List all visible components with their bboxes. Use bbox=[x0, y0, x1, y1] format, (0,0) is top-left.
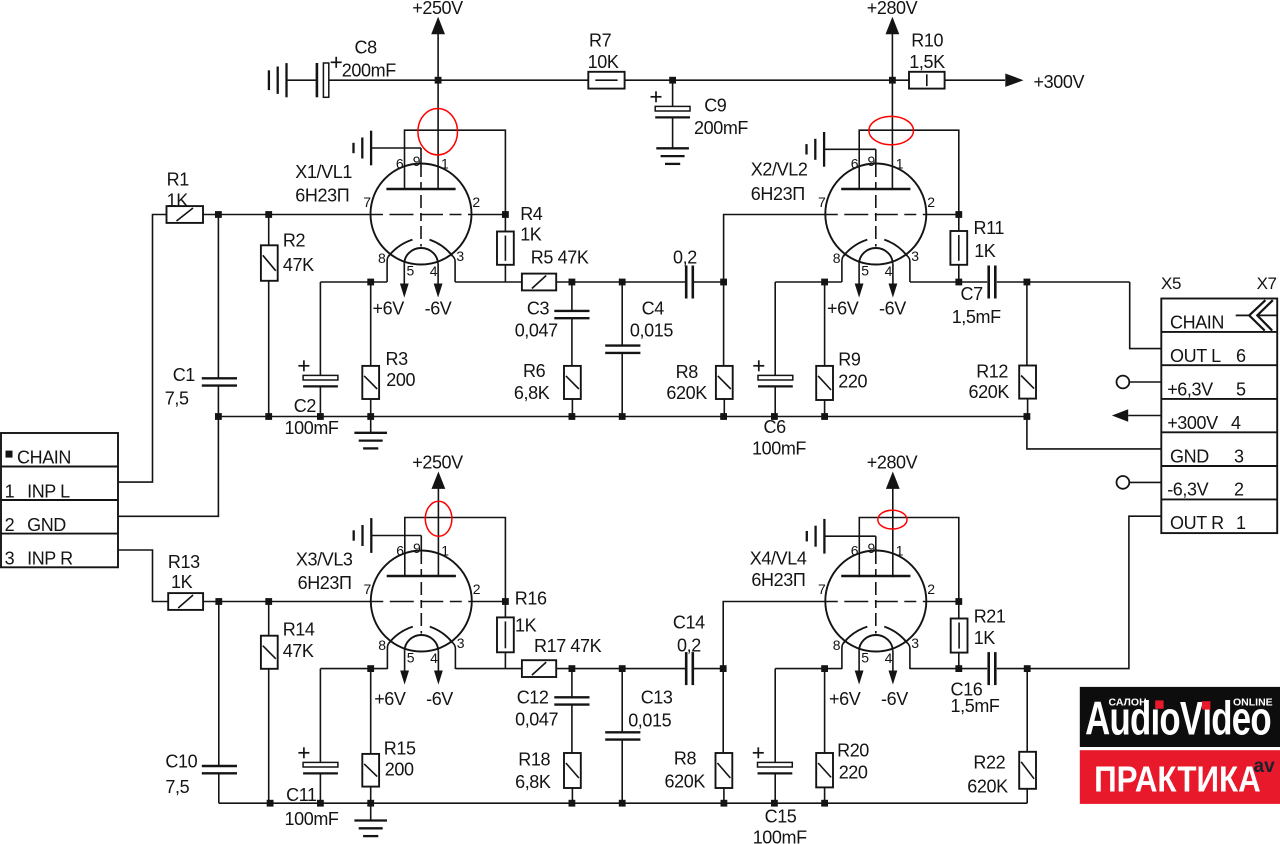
wire junction to R12 bbox=[1026, 282, 1028, 366]
junction +250V rail bbox=[435, 77, 442, 84]
tube X4/VL4 cathode lead pin 3 bbox=[907, 643, 910, 669]
svg-text:220: 220 bbox=[839, 763, 868, 783]
wire R15 to bottom rail bbox=[370, 787, 372, 804]
resistor R17 (47K) bbox=[522, 660, 556, 677]
svg-text:6Н23П: 6Н23П bbox=[298, 573, 352, 593]
svg-text:6: 6 bbox=[851, 542, 859, 558]
svg-text:10K: 10K bbox=[588, 52, 619, 72]
wire R9 to rail bbox=[824, 400, 826, 417]
wire C3 to R6 bbox=[571, 318, 573, 366]
junction X1 pin2/R4 bbox=[502, 211, 509, 218]
red highlight ellipse (X2 anode crossing) bbox=[869, 116, 914, 144]
resistor R9 (220) bbox=[816, 366, 833, 400]
svg-text:0,015: 0,015 bbox=[630, 321, 673, 341]
junction brail/R15 bbox=[367, 800, 374, 807]
svg-text:6: 6 bbox=[396, 542, 404, 558]
wire junction to C3 bbox=[571, 282, 573, 311]
bottom ground rail bbox=[219, 802, 1027, 804]
tube X3/VL3 anode plate bbox=[387, 575, 456, 578]
junction brail/R14 bbox=[267, 800, 274, 807]
wire R12 to rail bbox=[1027, 399, 1029, 417]
svg-text:4: 4 bbox=[1231, 413, 1241, 433]
svg-text:5: 5 bbox=[861, 263, 869, 279]
chevron inner bbox=[1257, 300, 1273, 330]
svg-text:8: 8 bbox=[378, 637, 386, 653]
svg-text:7,5: 7,5 bbox=[165, 389, 189, 409]
svg-text:C4: C4 bbox=[642, 298, 665, 318]
wire X2 pin 3 to R11 node bbox=[910, 281, 959, 283]
logo PRAKTIKA (red box) bbox=[1080, 750, 1280, 804]
svg-text:0,015: 0,015 bbox=[628, 710, 671, 730]
svg-text:8: 8 bbox=[833, 250, 841, 266]
svg-text:GND: GND bbox=[27, 515, 66, 535]
svg-text:3: 3 bbox=[911, 248, 919, 264]
svg-text:2: 2 bbox=[927, 194, 935, 210]
wire R1 to X1 grid pin 7 bbox=[203, 214, 371, 216]
tube X2/VL2 heater lead pin 4 with arrow bbox=[892, 264, 894, 292]
svg-text:C9: C9 bbox=[704, 96, 727, 116]
svg-text:5: 5 bbox=[1236, 380, 1246, 400]
wire down to C11 bbox=[319, 669, 321, 763]
svg-text:620K: 620K bbox=[969, 382, 1010, 402]
capacitor C12 (0,047) bbox=[554, 696, 589, 698]
svg-text:0,047: 0,047 bbox=[515, 710, 558, 730]
wire INP L to R1 bbox=[118, 215, 167, 483]
resistor R16 (1K) bbox=[497, 617, 514, 652]
resistor R13 (1K) bbox=[168, 593, 203, 610]
svg-text:R1: R1 bbox=[167, 170, 190, 190]
svg-text:100mF: 100mF bbox=[753, 828, 807, 844]
input connector (CHAIN / INP L / GND / INP R) bbox=[1, 433, 118, 567]
tube X1/VL1 envelope bbox=[371, 164, 472, 265]
svg-text:C7: C7 bbox=[961, 284, 984, 304]
resistor R7 (10K) bbox=[588, 72, 624, 89]
ground (bottom rail) bbox=[354, 819, 387, 821]
svg-text:R17 47K: R17 47K bbox=[534, 636, 602, 656]
tube X2/VL2 heater bbox=[859, 248, 893, 264]
junction C13 tap bbox=[619, 665, 626, 672]
junction C4 tap bbox=[619, 279, 626, 286]
tube X2/VL2 cathode bbox=[843, 240, 867, 257]
svg-text:1K: 1K bbox=[171, 572, 193, 592]
svg-text:1,5mF: 1,5mF bbox=[952, 307, 1001, 327]
svg-text:C8: C8 bbox=[355, 38, 378, 58]
svg-text:7,5: 7,5 bbox=[165, 777, 189, 797]
resistor R11 (1K) bbox=[950, 231, 967, 265]
svg-text:INP R: INP R bbox=[27, 548, 73, 568]
wire C13 to bottom rail bbox=[621, 739, 623, 803]
tube X1/VL1 heater lead pin 5 with arrow bbox=[403, 264, 405, 292]
wire C6 to rail bbox=[774, 386, 776, 416]
wire junction to R16 bbox=[504, 602, 506, 618]
red highlight ellipse (X1 anode crossing) bbox=[418, 109, 458, 155]
middle ground rail bbox=[218, 416, 1027, 418]
wire junction to R3 bbox=[370, 282, 372, 366]
wire R7 to R10 bbox=[625, 79, 909, 81]
wire R17 to C13 node bbox=[556, 668, 622, 670]
junction rail/R6 bbox=[569, 413, 576, 420]
svg-text:CHAIN: CHAIN bbox=[1170, 313, 1224, 333]
svg-text:C2: C2 bbox=[294, 396, 317, 416]
tube X3/VL3 heater lead pin 4 with arrow bbox=[437, 651, 439, 679]
ground (C8) bbox=[285, 63, 287, 97]
wire R8 to bottom rail bbox=[723, 788, 725, 803]
wire X1 pin 2 to junction bbox=[472, 214, 506, 216]
junction cathode/R20 bbox=[821, 665, 828, 672]
junction brail/C15 bbox=[771, 800, 778, 807]
wire down to C15 bbox=[774, 669, 776, 763]
junction C16/R22 bbox=[1024, 665, 1031, 672]
capacitor C2 (100mF) polarized bbox=[303, 375, 338, 380]
svg-text:X3/VL3: X3/VL3 bbox=[296, 549, 353, 569]
svg-text:0,047: 0,047 bbox=[515, 321, 558, 341]
wire ground to X1 pin 9 bbox=[371, 147, 421, 149]
svg-text:1K: 1K bbox=[515, 616, 537, 636]
svg-text:9: 9 bbox=[413, 153, 421, 169]
svg-text:INP L: INP L bbox=[27, 481, 70, 501]
resistor R8 bottom (620K) bbox=[716, 753, 733, 788]
tube X2/VL2 heater lead pin 5 with arrow bbox=[858, 264, 860, 292]
wire +6,3V row bbox=[1129, 381, 1161, 383]
chain chevron symbol bbox=[1236, 314, 1250, 316]
wire C10 to bottom rail bbox=[218, 773, 220, 803]
svg-text:7: 7 bbox=[363, 194, 371, 210]
junction X2 pin2/R11 bbox=[955, 211, 962, 218]
svg-text:X2/VL2: X2/VL2 bbox=[751, 160, 808, 180]
svg-text:1K: 1K bbox=[974, 628, 996, 648]
svg-text:X1/VL1: X1/VL1 bbox=[295, 162, 352, 182]
wire +300V row bbox=[1128, 415, 1161, 417]
junction X4 pin2/R21 bbox=[955, 598, 962, 605]
svg-text:1,5K: 1,5K bbox=[909, 52, 945, 72]
wire X4 pin 2 to junction bbox=[927, 601, 959, 603]
junction brail/C13 bbox=[619, 800, 626, 807]
wire C9 to ground bbox=[672, 117, 674, 148]
wire C4 to rail bbox=[621, 352, 623, 416]
X1 pin 9 lead bbox=[420, 148, 422, 164]
wire X2 pin 2 to junction bbox=[926, 214, 959, 216]
resistor R2 (47K) bbox=[261, 245, 278, 280]
svg-text:5: 5 bbox=[407, 263, 415, 279]
svg-text:OUT L: OUT L bbox=[1170, 346, 1221, 366]
svg-text:R4: R4 bbox=[520, 204, 543, 224]
svg-text:0,2: 0,2 bbox=[677, 635, 701, 655]
ground (middle rail) bbox=[354, 432, 387, 434]
wire C14 node up to X4 grid pin 7 bbox=[723, 602, 825, 669]
svg-text:3: 3 bbox=[457, 635, 465, 651]
svg-text:100mF: 100mF bbox=[752, 439, 806, 459]
svg-text:R16: R16 bbox=[515, 589, 547, 609]
tube X4/VL4 cathode lead pin 8 bbox=[842, 643, 843, 669]
svg-text:1: 1 bbox=[5, 481, 15, 501]
capacitor C3 (0,047) bbox=[554, 310, 589, 312]
resistor R1 (1K) bbox=[167, 206, 204, 223]
tube X4/VL4 heater lead pin 5 with arrow bbox=[858, 651, 860, 679]
svg-text:C13: C13 bbox=[641, 688, 673, 708]
svg-text:+6,3V: +6,3V bbox=[1167, 380, 1213, 400]
capacitor C4 (0,015) bbox=[605, 344, 640, 346]
svg-text:C15: C15 bbox=[765, 806, 797, 826]
tube X4/VL4 heater lead pin 4 with arrow bbox=[892, 651, 894, 679]
tube X1/VL1 cathode lead pin 3 bbox=[452, 256, 455, 282]
svg-text:+280V: +280V bbox=[867, 0, 918, 18]
tube X3/VL3 heater bbox=[405, 635, 439, 651]
svg-text:3: 3 bbox=[456, 248, 464, 264]
wire ground to X2 pin 9 bbox=[824, 148, 876, 150]
wire R22 to bottom rail bbox=[1026, 789, 1028, 803]
svg-text:-6,3V: -6,3V bbox=[1167, 480, 1208, 500]
svg-text:R12: R12 bbox=[976, 361, 1008, 381]
wire R21 to cathode wire bbox=[958, 653, 960, 669]
wire C15 to bottom rail bbox=[774, 773, 776, 803]
svg-text:47K: 47K bbox=[283, 255, 314, 275]
junction brail/R18 bbox=[569, 800, 576, 807]
svg-text:6Н23П: 6Н23П bbox=[751, 184, 805, 204]
wire junction to R22 bbox=[1026, 669, 1028, 752]
wire junction to R8 bbox=[723, 282, 725, 366]
wire ground to C8 bbox=[287, 79, 317, 81]
wire X4 anode pin 6 to grid pin 2 node bbox=[859, 518, 959, 602]
wire to C14 bbox=[622, 668, 686, 670]
wire junction to R11 bbox=[958, 215, 960, 232]
svg-text:X7: X7 bbox=[1257, 274, 1277, 293]
tube X1/VL1 cathode bbox=[388, 240, 412, 257]
wire to R14 bbox=[268, 602, 270, 636]
wire X3 anode pin 6 to grid pin 2 node bbox=[405, 518, 506, 602]
wire C5 node up to X2 grid pin 7 bbox=[724, 215, 826, 283]
svg-text:R21: R21 bbox=[974, 606, 1006, 626]
wire junction to R8 (bottom) bbox=[722, 669, 724, 753]
wire rail to ground (bottom) bbox=[370, 803, 372, 820]
svg-text:6,8K: 6,8K bbox=[515, 772, 551, 792]
junction brail/R20 bbox=[821, 800, 828, 807]
tube X3/VL3 cathode lead pin 8 bbox=[387, 643, 388, 669]
tube X4/VL4 grid (dashed) bbox=[826, 601, 926, 603]
svg-text:100mF: 100mF bbox=[285, 418, 339, 438]
tube X1/VL1 shield center line (dash-dot) bbox=[420, 164, 422, 247]
svg-text:6,8K: 6,8K bbox=[514, 383, 550, 403]
red highlight ellipse (X3 anode crossing) bbox=[425, 501, 452, 536]
svg-text:C11: C11 bbox=[286, 785, 317, 805]
wire X3 pin 3 to R17 bbox=[455, 668, 522, 670]
svg-text:200mF: 200mF bbox=[342, 61, 396, 81]
svg-text:-6V: -6V bbox=[879, 298, 906, 318]
svg-text:1: 1 bbox=[896, 542, 904, 558]
junction C7/R12 bbox=[1024, 279, 1031, 286]
svg-text:ПРАКТИКА: ПРАКТИКА bbox=[1094, 759, 1261, 800]
svg-text:R20: R20 bbox=[837, 741, 869, 761]
tube X3/VL3 cathode bbox=[389, 627, 413, 644]
svg-text:3: 3 bbox=[5, 548, 15, 568]
wire R20 to bottom rail bbox=[824, 787, 826, 803]
svg-text:+6V: +6V bbox=[827, 298, 859, 318]
junction C5/R8 bbox=[720, 279, 727, 286]
svg-text:R14: R14 bbox=[283, 620, 315, 640]
svg-text:R6: R6 bbox=[523, 361, 546, 381]
wire rail to ground bbox=[370, 417, 372, 433]
resistor R8 (620K) bbox=[716, 366, 733, 399]
wire X1 anode pin 6 to grid pin 2 node bbox=[405, 130, 506, 214]
svg-text:1: 1 bbox=[441, 542, 449, 558]
junction rail/R9 bbox=[821, 413, 828, 420]
resistor R6 (6,8K) bbox=[564, 366, 581, 399]
junction cathode/R15 bbox=[367, 665, 374, 672]
svg-text:C10: C10 bbox=[165, 751, 197, 771]
wire down to C6 bbox=[774, 282, 776, 375]
ground (C9) bbox=[656, 147, 689, 149]
tube X2/VL2 cathode lead pin 3 bbox=[907, 256, 910, 282]
wire ground to X3 pin 9 bbox=[371, 535, 421, 537]
svg-text:1: 1 bbox=[896, 155, 904, 171]
resistor R3 (200) bbox=[362, 366, 379, 399]
wire cathode left segment X2 bbox=[775, 281, 842, 283]
wire C8 to R7 bbox=[329, 79, 589, 81]
svg-text:1K: 1K bbox=[974, 241, 996, 261]
capacitor C16 (1,5mF) bbox=[987, 652, 990, 685]
junction rail/R12 bbox=[1024, 413, 1031, 420]
wire INP R to R13 bbox=[118, 550, 168, 602]
svg-text:+250V: +250V bbox=[412, 452, 463, 472]
junction R17/C12 bbox=[569, 665, 576, 672]
svg-text:9: 9 bbox=[413, 540, 421, 556]
junction R5/C3 bbox=[569, 279, 576, 286]
svg-text:C1: C1 bbox=[173, 365, 196, 385]
tube X1/VL1 grid (dashed) bbox=[371, 214, 471, 216]
svg-text:X4/VL4: X4/VL4 bbox=[750, 548, 807, 568]
svg-text:200: 200 bbox=[386, 370, 415, 390]
wire junction to R20 bbox=[824, 669, 826, 753]
junction +280V rail bbox=[889, 77, 896, 84]
capacitor C8 (200mF) bbox=[316, 63, 319, 97]
tube X2/VL2 envelope bbox=[825, 164, 926, 265]
svg-text:-6V: -6V bbox=[881, 689, 908, 709]
resistor R21 (1K) bbox=[951, 619, 968, 653]
wire R6 to rail bbox=[571, 399, 573, 417]
tube X1/VL1 heater lead pin 4 with arrow bbox=[437, 264, 439, 292]
svg-text:+280V: +280V bbox=[867, 452, 918, 472]
wire junction to C12 bbox=[571, 669, 573, 698]
wire C7 to OUT L bbox=[997, 281, 1130, 283]
+300V feed arrow (left-pointing) bbox=[1112, 409, 1128, 422]
junction C14/R8 bbox=[720, 665, 727, 672]
svg-text:+300V: +300V bbox=[1167, 413, 1218, 433]
svg-text:3: 3 bbox=[1234, 446, 1244, 466]
junction rail/C6 bbox=[771, 413, 778, 420]
svg-text:C12: C12 bbox=[517, 687, 549, 707]
resistor R4 (1K) bbox=[497, 232, 514, 265]
junction R14 tap bbox=[265, 598, 272, 605]
svg-text:4: 4 bbox=[430, 263, 438, 279]
wire OUT L 6 row bbox=[1130, 282, 1162, 349]
capacitor C13 (0,015) bbox=[605, 731, 640, 733]
wire to C7 bbox=[959, 281, 987, 283]
svg-text:САЛОН: САЛОН bbox=[1109, 697, 1147, 709]
wire cathode left segment X1 bbox=[320, 281, 387, 283]
logo Salon AudioVideo (black box) bbox=[1080, 687, 1280, 747]
svg-text:+6V: +6V bbox=[374, 689, 406, 709]
svg-text:9: 9 bbox=[868, 540, 876, 556]
tube X2/VL2 anode plate bbox=[841, 188, 910, 191]
svg-text:200: 200 bbox=[385, 759, 414, 779]
tube X3/VL3 heater lead pin 5 with arrow bbox=[404, 651, 406, 679]
wire R11 to cathode wire bbox=[958, 265, 960, 282]
junction brail/C11 bbox=[317, 800, 324, 807]
svg-text:R15: R15 bbox=[384, 739, 416, 759]
svg-text:+6V: +6V bbox=[373, 298, 405, 318]
wire rail to C9 bbox=[672, 80, 674, 106]
resistor R20 (220) bbox=[816, 753, 833, 787]
junction X3 pin2/R16 bbox=[502, 598, 509, 605]
svg-text:R2: R2 bbox=[283, 231, 306, 251]
wire down to C2 bbox=[319, 282, 321, 375]
svg-text:620K: 620K bbox=[666, 383, 707, 403]
svg-text:6Н23П: 6Н23П bbox=[751, 570, 805, 590]
svg-text:5: 5 bbox=[407, 650, 415, 666]
svg-text:R11: R11 bbox=[974, 218, 1005, 238]
ground (X4 shield) bbox=[823, 519, 825, 554]
tube X3/VL3 grid (dashed) bbox=[371, 601, 471, 603]
svg-text:C14: C14 bbox=[673, 613, 705, 633]
wire R16 to cathode wire bbox=[504, 652, 506, 668]
svg-text:OUT R: OUT R bbox=[1170, 513, 1224, 533]
svg-text:220: 220 bbox=[838, 372, 867, 392]
resistor R14 (47K) bbox=[261, 636, 278, 669]
svg-text:2: 2 bbox=[1234, 480, 1244, 500]
tube X4/VL4 cathode bbox=[843, 627, 867, 644]
junction R2 tap bbox=[265, 211, 272, 218]
resistor R18 (6,8K) bbox=[564, 753, 581, 788]
wire C16 to OUT R node bbox=[997, 668, 1027, 670]
X4 pin 9 lead bbox=[875, 536, 877, 551]
wire +280V down to X4 anode pin 1 bbox=[892, 488, 894, 578]
svg-text:3: 3 bbox=[911, 635, 919, 651]
wire -6,3V row bbox=[1129, 481, 1161, 483]
svg-text:R10: R10 bbox=[911, 31, 943, 51]
svg-text:C6: C6 bbox=[764, 417, 787, 437]
ground (X2 shield) bbox=[823, 132, 825, 167]
svg-text:4: 4 bbox=[885, 650, 893, 666]
heater terminal +6,3V (circle) bbox=[1117, 376, 1130, 389]
svg-text:1,5mF: 1,5mF bbox=[951, 696, 1000, 716]
wire R5 to C4 node bbox=[556, 281, 622, 283]
svg-text:CHAIN: CHAIN bbox=[17, 447, 71, 467]
svg-text:R22: R22 bbox=[973, 753, 1005, 773]
svg-text:GND: GND bbox=[1170, 446, 1209, 466]
capacitor C5 (0,2) bbox=[685, 266, 688, 299]
wire +250V down to X1 anode pin 1 bbox=[437, 33, 439, 189]
tube X1/VL1 anode plate bbox=[386, 188, 455, 191]
+300V output arrow bbox=[1005, 74, 1023, 87]
capacitor C1 (7,5) bbox=[202, 377, 237, 379]
wire to C16 bbox=[959, 668, 987, 670]
wire R13 to X3 grid pin 7 bbox=[203, 601, 371, 603]
svg-text:R9: R9 bbox=[838, 350, 861, 370]
junction R11 bottom bbox=[955, 279, 962, 286]
junction R21 bottom bbox=[955, 665, 962, 672]
svg-text:C3: C3 bbox=[527, 298, 550, 318]
svg-text:+300V: +300V bbox=[1034, 72, 1085, 92]
svg-text:200mF: 200mF bbox=[694, 118, 748, 138]
wire to C5 bbox=[622, 281, 686, 283]
tube X3/VL3 shield center line (dash-dot) bbox=[420, 551, 422, 634]
wire cathode left segment X3 bbox=[320, 668, 387, 670]
svg-text:4: 4 bbox=[885, 263, 893, 279]
tube X1/VL1 heater bbox=[404, 248, 438, 264]
svg-text:7: 7 bbox=[364, 581, 372, 597]
wire R8 to rail bbox=[723, 399, 725, 417]
X2 pin 9 lead bbox=[875, 149, 877, 164]
capacitor C15 (100mF) polarized bbox=[758, 762, 793, 767]
